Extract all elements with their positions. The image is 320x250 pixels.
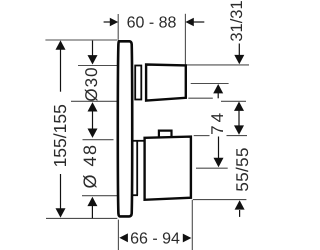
dimension text 74 (208, 110, 227, 135)
svg-text:Ø 48: Ø 48 (80, 143, 100, 188)
dimension 66-94 right extension line (191, 200, 193, 250)
chained arrows stem1-span right (234, 102, 244, 135)
dimension text 155/155 (50, 104, 70, 167)
volume knob button tab (159, 131, 172, 138)
valve sleeve bottom Ø48 (stem) (133, 141, 145, 195)
svg-text:66 - 94: 66 - 94 (130, 231, 180, 248)
extension line knob2 bottom right (193, 199, 247, 201)
dimension 155/155 bottom arrow (56, 174, 66, 218)
dimension Ø30 bottom arrow (88, 102, 98, 129)
dimension text 55/55 (233, 147, 252, 192)
dimension 155/155 top arrow (56, 40, 66, 91)
extension line stem1 bottom right (221, 100, 246, 102)
dimension text Ø30 (82, 66, 101, 101)
extension line stem2 bottom left (Ø48) (82, 195, 118, 197)
volume knob (bottom) (145, 137, 191, 200)
dimension 66-94 left extension line (117, 220, 119, 250)
dimension Ø30 top arrow (88, 41, 98, 65)
extension line plate-top left (45, 39, 117, 41)
dimension 74 top arrow (213, 84, 223, 98)
dimension 66-94 left arrow (119, 233, 128, 242)
dimension text 31/31 (228, 0, 246, 41)
extension line knob1 bottom right (188, 97, 213, 99)
dimension 55/55 bottom arrow (235, 200, 245, 217)
dimension text 66-94 (130, 231, 180, 248)
svg-text:Ø30: Ø30 (82, 66, 101, 101)
dimension 31/31 arrow (234, 44, 244, 65)
dimension Ø48 bottom arrow (87, 197, 97, 219)
escutcheon plate (side view) (118, 41, 132, 216)
dimension text 60-88 (127, 15, 177, 32)
extension line stem1 top left (Ø30) (78, 65, 117, 67)
svg-text:60 - 88: 60 - 88 (127, 15, 177, 32)
dimension 74 bottom arrow (214, 137, 224, 168)
dimension 60-88 left extension line (117, 14, 119, 40)
temperature knob (top) (146, 65, 186, 101)
dimension 60-88 right extension line (184, 14, 186, 65)
svg-text:31/31: 31/31 (228, 0, 246, 41)
dimension 66-94 right arrow (183, 234, 192, 243)
dimension Ø48 top arrow (88, 129, 98, 138)
dimension text Ø48 (80, 143, 100, 188)
dimension 60-88 left arrow (104, 18, 119, 27)
extension line knob2 axis right (196, 167, 228, 169)
svg-text:55/55: 55/55 (233, 147, 252, 192)
dimension 60-88 right arrow (185, 18, 204, 27)
extension line knob1 axis right (191, 83, 229, 85)
extension line stem2 top left (Ø48) (83, 139, 114, 141)
svg-text:74: 74 (208, 110, 227, 135)
extension line stem1 top right (186, 64, 249, 66)
svg-text:155/155: 155/155 (50, 104, 70, 167)
valve sleeve top Ø30 (stem) (135, 66, 141, 100)
extension line stem1 bottom left (Ø30) (71, 100, 117, 102)
extension line plate-bottom left (46, 217, 117, 219)
extension line knob2 top right (194, 135, 247, 137)
